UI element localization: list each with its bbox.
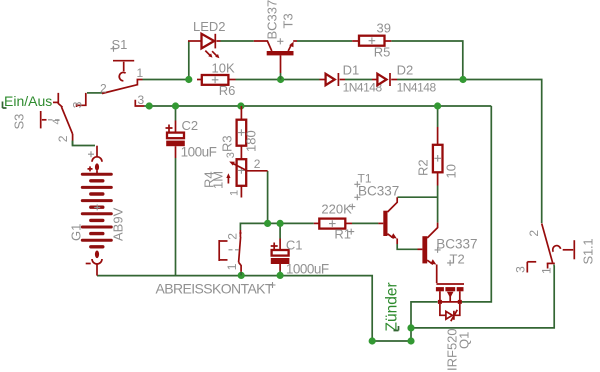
pin 2 S1 — [100, 81, 107, 95]
svg-text:3: 3 — [71, 101, 85, 108]
junction R3 branch on second bus — [237, 102, 244, 109]
svg-text:1000uF: 1000uF — [286, 262, 329, 277]
wire R4 wiper down — [267, 171, 269, 223]
wire R6 to T3 base junction — [236, 79, 281, 81]
wire R5 right to diode row corner — [391, 41, 463, 80]
svg-text:Zünder: Zünder — [384, 282, 401, 331]
wire R2 top lead — [437, 106, 439, 127]
label BC337 T3 — [265, 0, 280, 40]
svg-text:Q1: Q1 — [457, 332, 472, 349]
trimmer R4 — [226, 152, 267, 198]
label 1M — [211, 171, 226, 189]
label D2 — [397, 63, 414, 78]
svg-text:1N4148: 1N4148 — [397, 81, 437, 95]
svg-text:39: 39 — [377, 21, 391, 36]
transistor T1 — [378, 197, 397, 244]
svg-text:10K: 10K — [212, 61, 235, 76]
pin 4 S3 — [52, 119, 63, 125]
switch ABREISSKONTAKT — [219, 230, 241, 275]
wire T3 emitter to R5 — [297, 40, 352, 42]
svg-text:2: 2 — [100, 81, 107, 95]
svg-text:R5: R5 — [374, 45, 391, 60]
label R2 — [416, 159, 431, 176]
net label Zuender — [384, 282, 401, 331]
svg-text:180: 180 — [244, 130, 259, 152]
pin 1 ABREISSKONTAKT — [225, 263, 239, 270]
label 220K — [321, 202, 355, 217]
wire LED to T3 collector — [221, 40, 254, 42]
switch S1 pushbutton — [102, 61, 144, 106]
junction R4 wiper on base row — [264, 220, 271, 227]
pin 2 ABREISSKONTAKT — [225, 233, 239, 240]
svg-text:1: 1 — [225, 263, 239, 270]
junction R5/diode rail corner — [459, 76, 466, 83]
label 1000uF — [286, 262, 329, 277]
capacitor C1 — [271, 239, 290, 271]
svg-text:G1: G1 — [69, 224, 84, 241]
svg-text:3: 3 — [138, 93, 145, 107]
wire R1 to T1 base — [352, 222, 378, 224]
svg-text:1: 1 — [229, 190, 241, 196]
svg-text:BC337: BC337 — [358, 184, 399, 199]
junction Zuender node left — [369, 337, 376, 344]
svg-text:R2: R2 — [416, 159, 431, 176]
svg-text:1M: 1M — [211, 171, 226, 189]
pin 1 R4 — [229, 190, 241, 196]
svg-text:10: 10 — [444, 164, 459, 178]
svg-text:2: 2 — [56, 135, 70, 142]
svg-text:C2: C2 — [182, 118, 199, 133]
capacitor C2 — [166, 121, 185, 159]
label AB9V — [111, 207, 126, 241]
svg-text:BC337: BC337 — [436, 236, 477, 251]
junction Zuender node right — [407, 337, 414, 344]
resistor R5 — [352, 36, 391, 46]
label R5 — [374, 45, 391, 60]
pin 1 S1 — [137, 66, 144, 80]
label R3 — [220, 135, 235, 152]
svg-text:Ein/Aus: Ein/Aus — [4, 93, 52, 109]
wire Q1 source row to S1.1 pin1 — [411, 266, 554, 328]
label 10 — [444, 164, 459, 178]
junction C1 top on base row — [277, 220, 284, 227]
svg-text:2: 2 — [527, 230, 541, 237]
label S1 — [111, 37, 128, 52]
junction ABREISSKONTAKT pin1 on ground rail — [238, 272, 245, 279]
label Q1 — [457, 332, 472, 349]
wire top row S1 pin1 to LED junction — [143, 79, 189, 81]
label D1 — [343, 63, 360, 78]
wire R2 bottom to T2 collector — [437, 186, 439, 223]
svg-text:T2: T2 — [450, 251, 465, 266]
wire base row to R1 — [240, 223, 313, 230]
junction C2 branch on second bus — [172, 102, 179, 109]
pin 2 S3 — [56, 135, 70, 142]
mosfet Q1 IRF520 — [436, 284, 464, 321]
wire C1 top lead — [279, 223, 281, 238]
svg-text:3: 3 — [514, 266, 528, 273]
transistor T3 — [254, 38, 297, 79]
label R4 — [202, 171, 217, 188]
svg-text:3: 3 — [225, 152, 237, 158]
label C1 — [286, 238, 303, 253]
pin 3 S3 — [71, 101, 85, 108]
svg-text:D2: D2 — [397, 63, 414, 78]
pin 2 S1.1 — [527, 230, 541, 237]
wire right tall vertical to Q1 drain — [461, 106, 491, 302]
wire T3 base junction to D1 — [281, 79, 320, 81]
svg-text:R3: R3 — [220, 135, 235, 152]
wire S3 pin3 to S1 pin2 — [87, 92, 102, 94]
resistor R1 — [314, 219, 352, 229]
svg-text:4: 4 — [52, 119, 63, 125]
resistor R2 — [433, 127, 443, 186]
junction T3 base on top rail — [277, 76, 284, 83]
svg-text:1: 1 — [540, 267, 554, 274]
LED LED2 — [188, 34, 221, 58]
svg-text:2: 2 — [254, 157, 261, 171]
label 10K — [212, 61, 235, 76]
svg-text:T3: T3 — [281, 13, 296, 28]
label T2 — [447, 251, 465, 266]
label C2 — [182, 118, 199, 133]
svg-text:S1.1: S1.1 — [581, 239, 596, 265]
svg-text:BC337: BC337 — [265, 0, 280, 40]
net label Ein/Aus — [3, 93, 53, 109]
label ABREISSKONTAKT — [156, 281, 276, 297]
battery G1 — [82, 146, 111, 276]
junction C1 bottom on ground rail — [277, 272, 284, 279]
label R1 — [334, 227, 354, 242]
switch S3 — [41, 93, 86, 146]
wire second bus row — [144, 105, 491, 107]
wire C2 top lead — [175, 106, 177, 121]
wire D1 to D2 — [345, 79, 372, 81]
svg-text:1: 1 — [137, 66, 144, 80]
svg-text:C1: C1 — [286, 238, 303, 253]
wire diode row to S1.1 pin2 — [463, 80, 542, 224]
label 1N4148 D2 — [397, 81, 437, 95]
wire D2 to corner junction — [397, 79, 463, 81]
transistor T2 — [418, 223, 438, 283]
label 39 — [377, 21, 391, 36]
svg-text:100uF: 100uF — [181, 145, 217, 160]
label IRF520 — [445, 328, 460, 371]
wire battery plus to S3 — [73, 141, 96, 146]
label BC337 T2 — [435, 236, 478, 253]
label R6 — [219, 83, 236, 98]
svg-text:ABREISSKONTAKT: ABREISSKONTAKT — [156, 281, 274, 297]
pin 3 R4 — [225, 152, 237, 158]
wire C1 bottom lead — [279, 271, 281, 276]
wire Zuender link — [372, 302, 438, 341]
resistor R3 — [237, 106, 247, 152]
label T3 — [281, 13, 296, 28]
label G1 — [69, 224, 84, 241]
svg-text:S3: S3 — [12, 114, 27, 130]
label LED2 — [193, 19, 226, 34]
junction Q1 source row — [407, 324, 414, 331]
pin 1 S1.1 — [540, 267, 554, 274]
junction S1 pin3 on second bus — [146, 102, 153, 109]
svg-text:220K: 220K — [321, 202, 352, 217]
label 1N4148 D1 — [343, 81, 383, 95]
wire bottom rail battery minus to corner — [97, 276, 372, 341]
svg-text:LED2: LED2 — [193, 19, 226, 34]
svg-text:R6: R6 — [219, 83, 236, 98]
svg-text:AB9V: AB9V — [111, 207, 126, 241]
pin 3 S1.1 — [514, 266, 528, 273]
junction R2 branch on second bus — [434, 102, 441, 109]
pin 3 S1 — [138, 93, 145, 107]
pin 2 R4 — [254, 157, 261, 171]
label BC337 T1 — [354, 184, 399, 201]
label S1.1 — [581, 239, 596, 265]
svg-text:R1: R1 — [334, 227, 351, 242]
diode D2 — [372, 73, 397, 86]
resistor R6 — [197, 75, 236, 85]
wire T1 emitter to T2 base — [397, 244, 417, 249]
diode D1 — [320, 73, 346, 86]
svg-text:D1: D1 — [343, 63, 360, 78]
label T1 — [354, 171, 372, 187]
wire C2 bottom to ground rail — [175, 158, 177, 276]
label 100uF — [181, 145, 217, 160]
wire LED branch vertical — [188, 41, 190, 80]
switch S1.1 — [527, 224, 574, 273]
svg-text:2: 2 — [225, 233, 239, 240]
wire T1 collector to R2 branch — [397, 196, 437, 198]
junction LED branch on top rail — [185, 76, 192, 83]
label S3 — [12, 114, 27, 130]
label 180 — [244, 130, 259, 152]
